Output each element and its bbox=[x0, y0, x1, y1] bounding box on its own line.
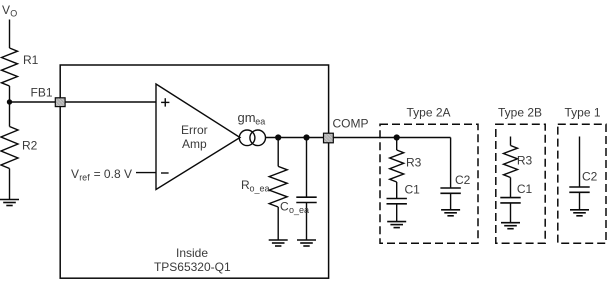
svg-text:R3: R3 bbox=[517, 154, 533, 168]
svg-text:= 0.8 V: = 0.8 V bbox=[94, 167, 132, 181]
svg-text:Amp: Amp bbox=[182, 137, 207, 151]
svg-text:FB1: FB1 bbox=[31, 86, 53, 100]
svg-text:o_ea: o_ea bbox=[250, 184, 270, 194]
svg-text:V: V bbox=[71, 167, 79, 181]
svg-text:C2: C2 bbox=[582, 170, 598, 184]
svg-text:O: O bbox=[10, 9, 17, 19]
svg-text:Type 1: Type 1 bbox=[564, 105, 600, 119]
svg-text:COMP: COMP bbox=[333, 117, 369, 131]
svg-text:R3: R3 bbox=[406, 155, 422, 169]
svg-text:Type 2B: Type 2B bbox=[498, 105, 542, 119]
svg-text:C: C bbox=[280, 200, 289, 214]
svg-text:V: V bbox=[2, 3, 10, 17]
svg-text:R1: R1 bbox=[23, 53, 39, 67]
svg-text:o_ea: o_ea bbox=[289, 205, 309, 215]
svg-text:C1: C1 bbox=[517, 182, 533, 196]
svg-text:gm: gm bbox=[238, 110, 256, 125]
svg-text:Type 2A: Type 2A bbox=[406, 105, 450, 119]
svg-text:C2: C2 bbox=[455, 173, 471, 187]
svg-text:R2: R2 bbox=[22, 139, 38, 153]
svg-text:C1: C1 bbox=[405, 183, 421, 197]
svg-text:TPS65320-Q1: TPS65320-Q1 bbox=[154, 260, 231, 274]
svg-text:ea: ea bbox=[255, 116, 265, 126]
svg-text:Inside: Inside bbox=[176, 246, 208, 260]
svg-text:Error: Error bbox=[181, 123, 208, 137]
svg-text:ref: ref bbox=[79, 173, 90, 183]
